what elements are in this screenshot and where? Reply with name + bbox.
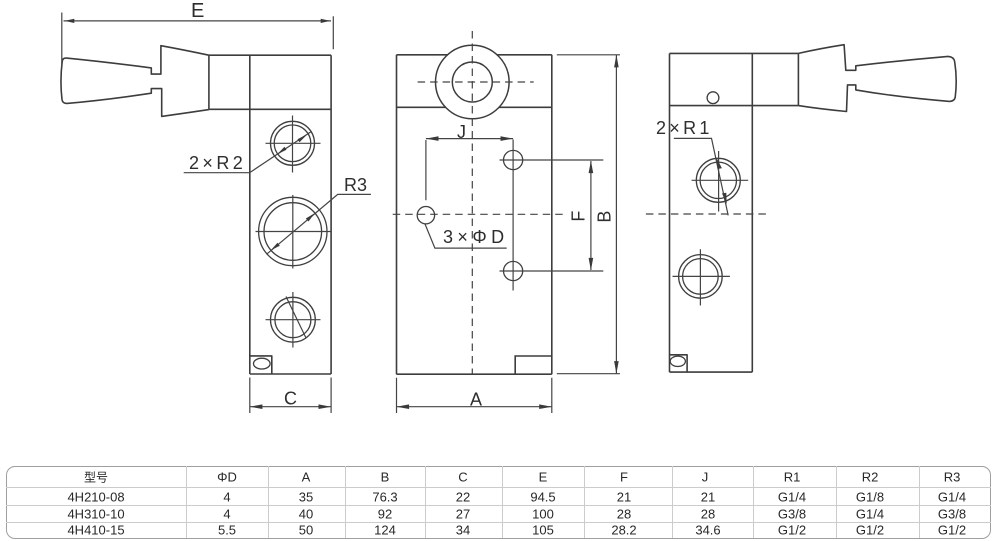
dimension J line and extension line bbox=[426, 139, 513, 201]
port circle lower right view inner bbox=[683, 259, 719, 295]
dimension E line and extension lines bbox=[62, 13, 334, 65]
port boss rectangle bottom-left right view bbox=[670, 355, 688, 372]
svg-text:C: C bbox=[284, 389, 297, 409]
lever handle (grip + collar) left view bbox=[61, 46, 209, 117]
svg-text:A: A bbox=[470, 389, 482, 409]
port circle C2 inner bbox=[264, 203, 322, 261]
svg-text:J: J bbox=[457, 122, 466, 142]
leader arrowheads 2xR2 bbox=[277, 134, 308, 154]
port ellipse right view bbox=[670, 356, 685, 366]
crosshair C1 bbox=[266, 116, 321, 173]
bolt axis vertical line bbox=[512, 140, 514, 291]
centerline horizontal dashed bbox=[393, 213, 564, 215]
svg-text:E: E bbox=[191, 0, 204, 22]
port circle C1 inner bbox=[274, 125, 311, 162]
bolt crosshair / F extension bottom bbox=[500, 270, 604, 272]
svg-text:3×ΦD: 3×ΦD bbox=[443, 227, 508, 247]
dimension J bbox=[426, 139, 513, 201]
bolt hole bottom right bbox=[503, 261, 522, 280]
centerline dashed right view bbox=[646, 213, 769, 215]
dimension F line bbox=[590, 161, 592, 270]
port circle C3 outer bbox=[271, 297, 316, 342]
svg-text:2×R1: 2×R1 bbox=[656, 118, 713, 138]
hole left (3xPhiD) bbox=[417, 207, 434, 224]
crosshair upper circle right view bbox=[692, 151, 749, 212]
leader arrowheads R3 bbox=[271, 213, 315, 250]
bolt crosshair / F extension top bbox=[500, 159, 604, 161]
port boss rectangle bottom-left bbox=[250, 356, 272, 374]
svg-text:B: B bbox=[595, 211, 615, 223]
body front view bbox=[397, 55, 552, 374]
crosshair C2 bbox=[256, 195, 331, 269]
port circle C3 inner bbox=[275, 302, 311, 338]
dimension A arrowheads bbox=[397, 404, 552, 409]
body top section left view bbox=[209, 55, 331, 109]
port circle C1 outer bbox=[271, 121, 315, 165]
centerline vertical dashed bbox=[471, 31, 473, 374]
dimension B arrowheads bbox=[614, 55, 619, 374]
lever handle (grip + collar) right view bbox=[798, 45, 956, 112]
port ellipse bottom-left bbox=[253, 358, 270, 369]
body left view bbox=[250, 55, 331, 374]
pivot circle outer bbox=[436, 45, 510, 119]
dimension C bbox=[250, 378, 331, 414]
svg-text:R3: R3 bbox=[344, 175, 367, 195]
dimension F bbox=[590, 161, 592, 270]
leader line 2xR2 bbox=[184, 132, 311, 173]
pivot circle inner bbox=[452, 62, 492, 102]
crosshair C3 bbox=[266, 292, 321, 348]
dimension C arrowheads bbox=[250, 404, 331, 409]
leader line 3xPhiD bbox=[425, 224, 507, 249]
bottom-right notch front view bbox=[515, 356, 552, 374]
top section line front view bbox=[397, 106, 552, 108]
leader arrowheads 2xR1 bbox=[716, 157, 726, 204]
svg-text:F: F bbox=[569, 211, 589, 222]
small pin circle right view bbox=[707, 92, 719, 104]
svg-text:2×R2: 2×R2 bbox=[189, 153, 246, 173]
centerline horizontal dashed through pivot bbox=[418, 81, 534, 83]
dimension J arrowheads bbox=[426, 136, 513, 141]
leader line R3 bbox=[267, 194, 371, 254]
body right view bbox=[670, 53, 753, 372]
leader line 2xR1 bbox=[674, 138, 728, 215]
crosshair lower circle right view bbox=[673, 249, 730, 305]
port circle upper right view outer bbox=[696, 158, 740, 202]
port circle lower right view outer bbox=[679, 255, 723, 299]
dimension E bbox=[62, 13, 334, 65]
dimension A line and extension lines bbox=[397, 378, 552, 413]
dimension B line and extension lines bbox=[557, 55, 620, 374]
dimension A bbox=[397, 378, 552, 413]
diagonal mark C3 bbox=[286, 297, 306, 339]
dimension E arrowheads bbox=[65, 19, 331, 23]
port circle upper right view inner bbox=[700, 162, 736, 198]
dimension F arrowheads bbox=[589, 161, 594, 271]
dimension B bbox=[557, 55, 620, 374]
port circle C2 outer bbox=[259, 197, 327, 265]
bolt hole top right bbox=[503, 150, 522, 169]
dimension C line and extension lines bbox=[250, 378, 331, 414]
body top section right view bbox=[670, 53, 799, 105]
